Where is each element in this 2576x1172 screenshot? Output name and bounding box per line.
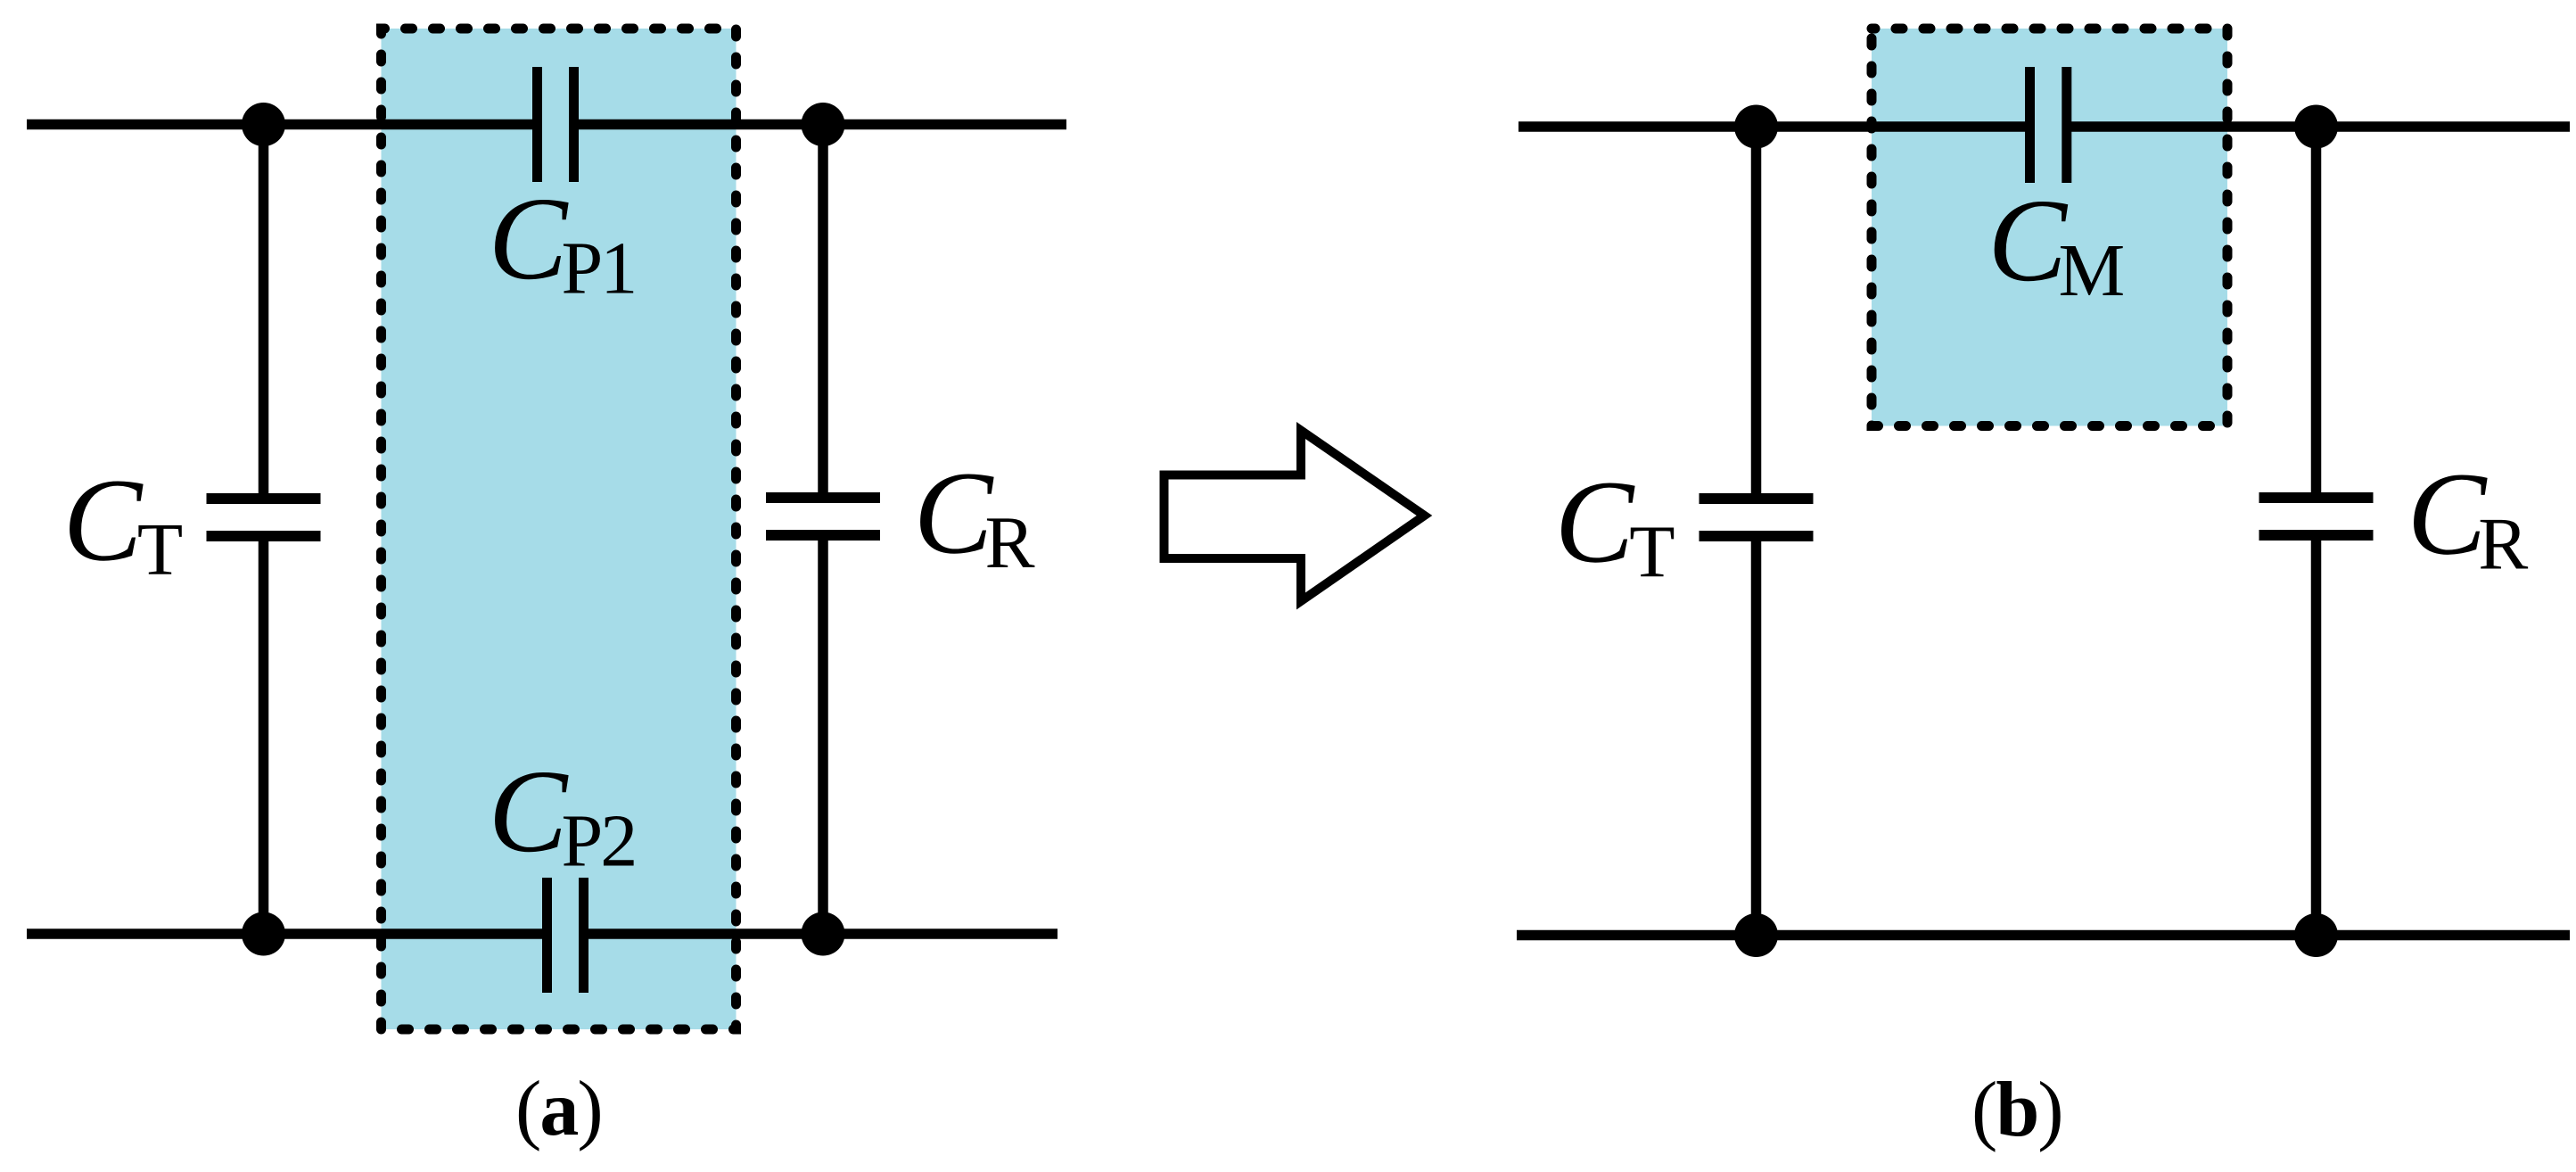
wire bottom left (a)	[27, 929, 547, 939]
wire right branch lower (b)	[2311, 535, 2322, 936]
svg-text:(a): (a)	[515, 1066, 602, 1152]
junction node top-right (a)	[802, 103, 845, 146]
capacitor CP1 plates	[538, 67, 574, 182]
svg-text:P2: P2	[562, 800, 636, 883]
svg-text:C: C	[2407, 448, 2488, 580]
svg-text:P1: P1	[562, 227, 636, 310]
junction node top-right (b)	[2294, 105, 2338, 149]
junction node top-left (b)	[1734, 105, 1778, 149]
wire top left (a)	[27, 120, 537, 130]
junction node bottom-left (b)	[1734, 913, 1778, 957]
wire bottom right (a)	[584, 929, 1058, 939]
svg-text:T: T	[137, 508, 183, 591]
capacitor CR (a) plates	[766, 498, 880, 535]
wire top right (b)	[2067, 121, 2570, 132]
wire right branch upper (a)	[818, 125, 828, 499]
label CR (b)	[2407, 448, 2529, 586]
wire left branch upper (a)	[259, 125, 269, 499]
svg-text:T: T	[1629, 511, 1675, 594]
capacitor CM plates	[2030, 67, 2067, 183]
svg-text:R: R	[2478, 503, 2528, 586]
svg-text:C: C	[489, 172, 569, 304]
capacitor CT (a) plates	[207, 499, 321, 536]
label CT (a)	[63, 454, 184, 592]
junction node bottom-right (b)	[2294, 913, 2338, 957]
capacitor CR (b) plates	[2259, 498, 2374, 535]
junction node top-left (a)	[242, 103, 285, 146]
svg-text:C: C	[63, 454, 144, 586]
wire right branch upper (b)	[2311, 127, 2322, 498]
wire top right (a)	[574, 120, 1066, 130]
capacitor CP2 plates	[547, 878, 584, 993]
wire bottom (b)	[1517, 930, 2570, 941]
block arrow	[1165, 431, 1425, 602]
svg-text:C: C	[1555, 456, 1635, 588]
wire right branch lower (a)	[818, 535, 828, 934]
wire left branch lower (b)	[1751, 536, 1762, 936]
label CT (b)	[1555, 456, 1675, 594]
svg-text:C: C	[489, 745, 569, 877]
junction node bottom-left (a)	[242, 912, 285, 956]
label CR (a)	[914, 447, 1035, 585]
wire top left (b)	[1518, 121, 2029, 132]
junction node bottom-right (a)	[802, 912, 845, 956]
label CP2	[489, 745, 636, 883]
wire left branch upper (b)	[1751, 127, 1762, 499]
svg-text:M: M	[2059, 229, 2126, 312]
capacitor CT (b) plates	[1700, 499, 1814, 536]
svg-text:(b): (b)	[1971, 1067, 2062, 1153]
shaded mutual region (b) dashed box	[1872, 29, 2227, 426]
svg-text:R: R	[985, 501, 1035, 584]
svg-text:C: C	[914, 447, 994, 579]
shaded parasitic region (a) dashed box	[382, 29, 737, 1029]
label CP1	[489, 172, 636, 310]
svg-text:C: C	[1988, 174, 2068, 306]
label CM	[1988, 174, 2125, 312]
wire left branch lower (a)	[259, 536, 269, 934]
